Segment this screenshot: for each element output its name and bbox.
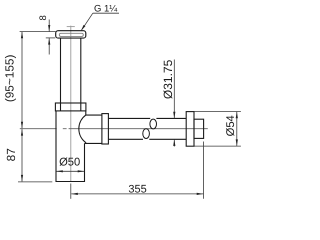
dim 8: arrow down to nut top <box>48 25 50 32</box>
dim (95~155): arrow down <box>21 122 23 129</box>
vertical centerline of trap body <box>70 26 72 181</box>
dim O50: arrow right <box>78 170 85 172</box>
dim 87: dimension line <box>21 129 23 181</box>
dim 8: extension line at nut top <box>20 31 56 33</box>
pipe break lower ellipse <box>143 129 150 139</box>
svg-text:Ø50: Ø50 <box>59 157 80 169</box>
svg-text:355: 355 <box>128 183 146 195</box>
top coupling nut (G 1 1/4) <box>56 31 86 38</box>
dim 355: dimension line <box>71 193 203 195</box>
svg-text:8: 8 <box>38 15 49 20</box>
svg-text:87: 87 <box>4 148 18 161</box>
outlet horn top edge <box>86 114 102 116</box>
dim 355: left extension line (center) <box>70 184 72 199</box>
label G 1 1/4: leader diagonal <box>82 13 93 30</box>
pipe break upper ellipse <box>150 119 157 129</box>
dim O54: top extension line <box>194 111 241 113</box>
dim 355: arrow left <box>71 193 78 195</box>
dim 8: arrow up to nut bottom <box>48 38 50 45</box>
inlet pipe wall left <box>60 38 62 111</box>
centerline cross tick above nut <box>67 26 75 28</box>
body cup outline <box>56 111 85 182</box>
wall stub pipe <box>194 119 204 138</box>
outlet tube right segment bottom <box>149 138 186 140</box>
svg-text:G 1¼: G 1¼ <box>94 3 118 14</box>
dim 8: upper dimension line <box>48 20 50 32</box>
dim O31.75: upper dimension line <box>173 60 175 119</box>
label G 1 1/4: leader arrowhead <box>80 25 85 32</box>
dim O50: arrow left <box>56 170 63 172</box>
elbow ball arc <box>79 115 86 143</box>
horizontal centerline of outlet <box>20 128 57 130</box>
dim 87: arrow up <box>21 129 23 136</box>
dim (95~155): dimension line <box>21 32 23 129</box>
dim O31.75: lower dimension line <box>173 139 175 146</box>
outlet tube right segment top <box>156 117 186 119</box>
svg-text:(95~155): (95~155) <box>2 55 16 103</box>
body right edge above elbow <box>85 111 87 115</box>
dim 355: arrow right <box>197 193 204 195</box>
dim 355: right extension line <box>203 142 205 199</box>
nut inner chamfer slot <box>59 33 83 36</box>
dim O50: dimension line <box>57 170 85 172</box>
dim O54: arrow up <box>236 112 238 119</box>
dim O31.75: arrow up to tube bottom <box>173 139 175 146</box>
label G 1 1/4: leader shoulder line <box>93 12 119 14</box>
dim O54: dimension line <box>236 112 238 146</box>
dim O54: arrow down <box>236 139 238 146</box>
outlet horn bottom edge <box>85 142 102 144</box>
dim 8: extension tick at nut bottom <box>46 37 55 39</box>
dim (95~155): arrow up <box>21 32 23 39</box>
dim 87: arrow down <box>21 175 23 182</box>
outlet compression nut <box>102 114 109 144</box>
outlet tube left segment top <box>108 117 150 119</box>
svg-text:Ø31.75: Ø31.75 <box>161 59 175 99</box>
dim 87: extension line at body bottom <box>18 181 52 183</box>
wall flange <box>186 112 194 147</box>
dim O31.75: arrow down to tube top <box>173 112 175 119</box>
body top collar <box>55 103 86 111</box>
dim 8: lower dimension line <box>48 38 50 54</box>
dim O54: bottom extension line <box>195 145 241 147</box>
inlet pipe wall right <box>80 38 82 111</box>
svg-text:Ø54: Ø54 <box>225 115 237 136</box>
outlet tube left segment bottom <box>108 138 143 140</box>
